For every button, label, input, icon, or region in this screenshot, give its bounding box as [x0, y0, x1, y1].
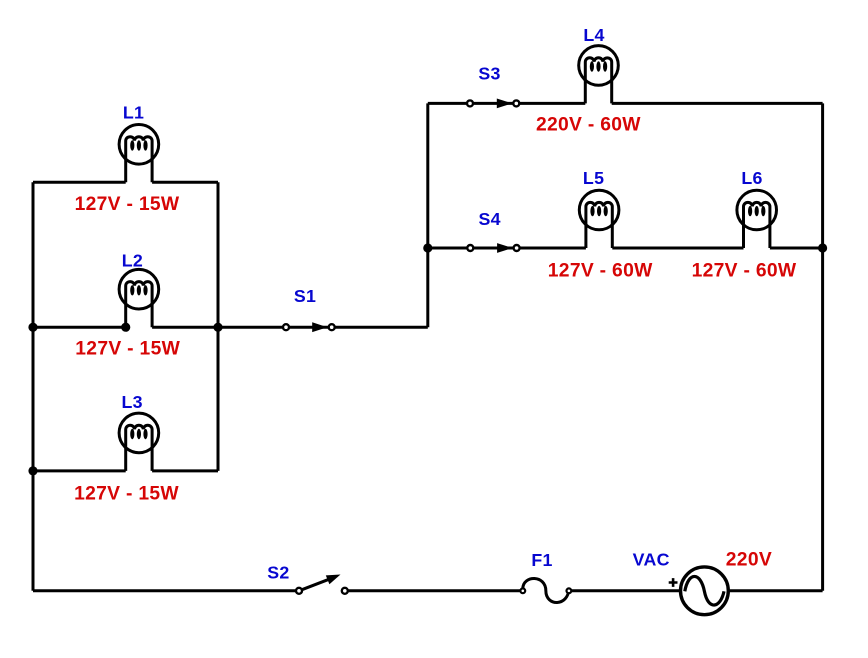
wire L5 to L6: [612, 247, 743, 250]
junction L2 left lead: [121, 323, 130, 332]
junction inner rail / L2 row: [213, 323, 222, 332]
wire inner right rail: [217, 182, 220, 471]
svg-text:L4: L4: [583, 25, 604, 45]
wire L6 to right rail: [770, 247, 823, 250]
wire top branch to S3: [428, 102, 470, 105]
wire L3 row left segment: [33, 469, 126, 472]
junction left rail / L2 row: [28, 323, 37, 332]
wire F1 to VAC: [569, 589, 679, 592]
lamp L4: [579, 46, 619, 104]
svg-text:VAC: VAC: [633, 550, 670, 570]
svg-text:127V - 15W: 127V - 15W: [74, 483, 179, 504]
wire L3 row right segment: [152, 469, 218, 472]
switch S3 (closed): [467, 99, 519, 109]
svg-text:127V - 15W: 127V - 15W: [75, 194, 180, 215]
svg-text:S2: S2: [267, 562, 289, 582]
switch S1 (closed): [283, 322, 335, 332]
wire VAC to right rail: [730, 589, 823, 592]
junction junction vertical / middle branch: [423, 243, 432, 252]
svg-text:L5: L5: [583, 168, 604, 188]
lamp L6: [737, 190, 777, 248]
svg-text:220V - 60W: 220V - 60W: [536, 115, 641, 136]
wire S1 to junction vertical: [332, 326, 428, 329]
svg-text:S4: S4: [479, 209, 501, 229]
svg-text:F1: F1: [531, 550, 552, 570]
wire L1 row right segment: [152, 181, 218, 184]
wire left rail: [32, 182, 35, 591]
wire L2 row left segment: [33, 326, 126, 329]
svg-text:127V - 60W: 127V - 60W: [548, 261, 653, 282]
junction left rail / L3 row: [28, 466, 37, 475]
svg-text:L1: L1: [123, 103, 144, 123]
wire bottom wire to S2: [33, 589, 299, 592]
wire L2 row to S1: [152, 326, 286, 329]
fuse F1: [520, 578, 571, 602]
svg-text:L2: L2: [122, 250, 143, 270]
wire S2 to F1: [345, 589, 523, 592]
svg-text:S3: S3: [478, 64, 500, 84]
svg-text:127V - 60W: 127V - 60W: [692, 261, 797, 282]
svg-text:127V - 15W: 127V - 15W: [75, 338, 180, 359]
svg-text:L6: L6: [741, 168, 762, 188]
switch S4 (closed): [467, 243, 519, 253]
wire S4 to L5: [517, 247, 586, 250]
wire junction vertical: [426, 103, 429, 327]
lamp L1: [119, 125, 159, 183]
lamp L3: [119, 413, 159, 471]
wire L1 row left segment: [33, 181, 126, 184]
svg-text:220V: 220V: [726, 550, 772, 571]
junction right rail / middle branch: [818, 243, 827, 252]
switch S2 (open): [296, 575, 348, 594]
AC source VAC: [669, 567, 729, 615]
wire middle branch to S4: [428, 247, 471, 250]
wire right rail: [821, 103, 824, 590]
svg-text:L3: L3: [122, 392, 143, 412]
svg-text:S1: S1: [294, 286, 316, 306]
wire S3 to L4: [516, 102, 585, 105]
wire L4 to right rail: [612, 102, 823, 105]
lamp L5: [579, 190, 619, 248]
lamp L2: [119, 269, 159, 327]
